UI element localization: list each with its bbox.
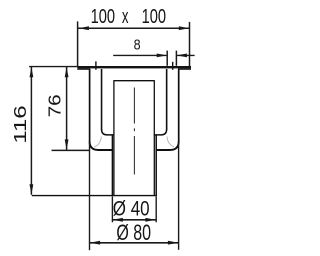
dimension 8 left tail — [113, 54, 167, 56]
centerline — [133, 88, 135, 175]
svg-text:x: x — [122, 6, 129, 28]
svg-text:8: 8 — [134, 36, 141, 53]
centerline dash 1 — [133, 88, 135, 124]
extension line 8 left — [166, 51, 168, 66]
inner wall left corner to shelf — [102, 129, 115, 135]
inner wall right corner to shelf — [154, 129, 167, 135]
arrowhead d40 left — [112, 218, 123, 222]
outer wall right bottom corner — [156, 142, 179, 151]
joint tick right — [172, 62, 173, 70]
arrowhead 8 left (points right) — [157, 54, 168, 58]
svg-text:Ø 80: Ø 80 — [116, 220, 151, 245]
extension line diameter80 left — [89, 143, 91, 250]
centerline dot 1 — [133, 128, 135, 131]
extension line top-left — [77, 21, 79, 66]
flange right lip — [178, 68, 191, 69]
dimension line 116 — [30, 67, 32, 195]
outer wall right — [178, 69, 180, 142]
arrowhead d40 right — [145, 218, 156, 222]
extension line top-right — [189, 22, 191, 66]
dimension line 76 — [66, 67, 68, 150]
outer wall left — [89, 69, 91, 142]
pipe bore top edge — [113, 80, 154, 82]
dimension line diameter80 — [90, 242, 179, 244]
arrowhead d80 right — [168, 241, 179, 245]
shared extension line left horizontal — [29, 66, 77, 68]
pipe outer wall left — [111, 135, 113, 195]
flange top plate — [77, 66, 191, 68]
arrowhead 8 right (points left) — [176, 54, 187, 58]
extension line diameter40 right — [155, 196, 157, 222]
arrowhead 76 bottom (down) — [65, 139, 69, 150]
pipe outer wall right — [155, 135, 157, 195]
pipe bore left — [113, 81, 115, 196]
dimension line diameter40 — [112, 219, 156, 221]
extension line diameter40 left — [111, 196, 113, 222]
arrowhead 116 bottom (down) — [30, 184, 34, 195]
svg-text:Ø 40: Ø 40 — [113, 197, 150, 221]
centerline dash 2 — [133, 136, 135, 175]
extension line 76 bottom — [52, 149, 90, 151]
flange left lip — [77, 68, 90, 69]
svg-text:116: 116 — [10, 105, 30, 144]
extension line 8 right — [175, 51, 177, 66]
pipe bore right — [153, 81, 155, 196]
svg-text:100: 100 — [91, 6, 115, 28]
pipe end face / 116 extension line — [32, 195, 157, 197]
inner fillet arc left (faint) — [94, 137, 101, 148]
svg-text:76: 76 — [44, 94, 64, 117]
arrowhead 76 top (up) — [65, 67, 69, 78]
extension line diameter80 right — [178, 143, 180, 250]
inner fillet arc right (faint) — [167, 137, 174, 148]
joint tick left — [95, 61, 96, 69]
arrowhead d80 left — [90, 241, 101, 245]
arrowhead 100 left — [78, 26, 89, 30]
arrowhead 116 top (up) — [30, 67, 34, 78]
arrowhead 100 right — [179, 26, 190, 30]
inner wall left — [101, 69, 103, 130]
dimension 8 right tail — [176, 54, 194, 56]
outer wall left bottom corner — [90, 142, 113, 151]
inner wall right — [166, 69, 168, 130]
svg-text:100: 100 — [142, 6, 166, 28]
dimension line 100x100 — [78, 27, 190, 29]
